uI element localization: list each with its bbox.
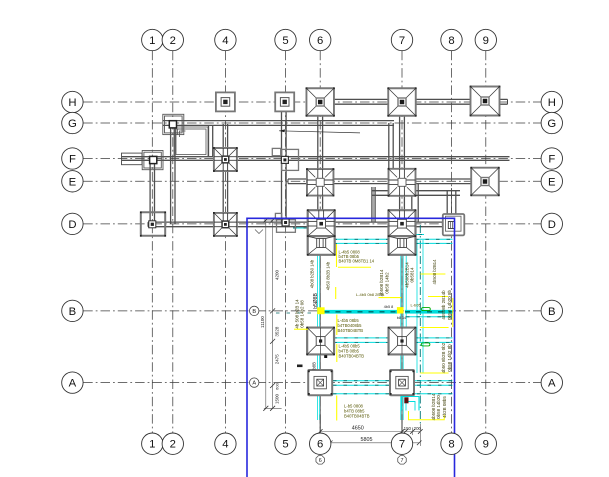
svg-text:4: 4 — [222, 35, 228, 47]
svg-text:b8B: b8B — [312, 362, 317, 370]
svg-text:H: H — [548, 97, 556, 109]
svg-text:5: 5 — [282, 35, 288, 47]
svg-text:4650: 4650 — [352, 426, 364, 432]
svg-text:2: 2 — [170, 439, 176, 451]
svg-text:6: 6 — [317, 439, 323, 451]
svg-text:E: E — [69, 176, 77, 188]
svg-text:0b58 14b20 8b: 0b58 14b20 8b — [447, 289, 452, 320]
svg-text:1500: 1500 — [275, 393, 280, 404]
svg-text:B: B — [69, 306, 77, 318]
svg-text:0b58 14b20: 0b58 14b20 — [436, 395, 441, 419]
svg-text:F: F — [548, 154, 555, 166]
svg-text:0b5814: 0b5814 — [410, 267, 415, 283]
svg-text:600: 600 — [275, 382, 280, 389]
svg-text:5805: 5805 — [361, 437, 373, 443]
svg-text:3528: 3528 — [275, 326, 280, 337]
svg-text:4b5 8: 4b5 8 — [384, 305, 394, 309]
svg-text:6: 6 — [319, 458, 322, 464]
svg-text:4b508 b2B14: 4b508 b2B14 — [432, 259, 437, 285]
svg-text:4b50 8b2B 0b2: 4b50 8b2B 0b2 — [441, 342, 446, 373]
svg-text:B40TB04BTB: B40TB04BTB — [344, 413, 370, 418]
svg-text:D: D — [68, 219, 76, 231]
svg-text:0b58 14b2: 0b58 14b2 — [385, 272, 390, 294]
svg-text:4200: 4200 — [275, 269, 280, 280]
svg-text:F: F — [69, 154, 76, 166]
svg-text:5: 5 — [282, 439, 288, 451]
svg-text:0b58 14b2 08: 0b58 14b2 08 — [300, 300, 305, 328]
svg-text:7: 7 — [401, 458, 404, 464]
svg-text:G: G — [547, 118, 556, 130]
svg-text:9: 9 — [483, 35, 489, 47]
svg-text:A: A — [69, 378, 77, 390]
svg-text:6: 6 — [317, 35, 323, 47]
svg-text:11100: 11100 — [260, 316, 265, 328]
svg-text:7: 7 — [399, 35, 405, 47]
svg-text:4b08 b2B0 14b: 4b08 b2B0 14b — [310, 259, 315, 288]
svg-text:B40TB04BTB: B40TB04BTB — [338, 328, 364, 333]
svg-text:1: 1 — [149, 35, 155, 47]
svg-text:4b2B 08b5: 4b2B 08b5 — [442, 396, 447, 418]
svg-text:B40TB 0M8TB1 14: B40TB 0M8TB1 14 — [339, 259, 375, 264]
svg-text:1: 1 — [149, 439, 155, 451]
svg-text:4b50 8b2B 14b: 4b50 8b2B 14b — [325, 261, 330, 290]
svg-text:4b508 b2B14: 4b508 b2B14 — [379, 269, 384, 296]
svg-text:0b58 14b2 8b: 0b58 14b2 8b — [447, 344, 452, 372]
svg-text:9: 9 — [483, 439, 489, 451]
svg-text:E: E — [548, 176, 556, 188]
svg-text:B: B — [548, 306, 556, 318]
svg-text:8: 8 — [448, 439, 454, 451]
svg-text:L-b05: L-b05 — [411, 303, 422, 308]
svg-text:H: H — [68, 97, 76, 109]
svg-text:A: A — [252, 381, 256, 387]
svg-text:150: 150 — [404, 426, 412, 431]
svg-text:G: G — [68, 118, 77, 130]
svg-text:D: D — [548, 219, 556, 231]
svg-text:2: 2 — [170, 35, 176, 47]
svg-text:4b508b 2B14b: 4b508b 2B14b — [441, 290, 446, 320]
svg-text:A: A — [548, 378, 556, 390]
svg-text:B: B — [252, 309, 256, 315]
svg-text:2475: 2475 — [275, 354, 280, 365]
svg-text:7: 7 — [399, 439, 405, 451]
svg-text:b5Ø8B: b5Ø8B — [313, 293, 319, 309]
svg-text:B40TB04BTB: B40TB04BTB — [339, 354, 365, 359]
svg-text:4: 4 — [222, 439, 228, 451]
svg-text:8: 8 — [448, 35, 454, 47]
svg-text:200: 200 — [414, 426, 422, 431]
svg-text:4b508 b2B14: 4b508 b2B14 — [431, 393, 436, 420]
svg-text:b8 14: b8 14 — [397, 316, 407, 320]
